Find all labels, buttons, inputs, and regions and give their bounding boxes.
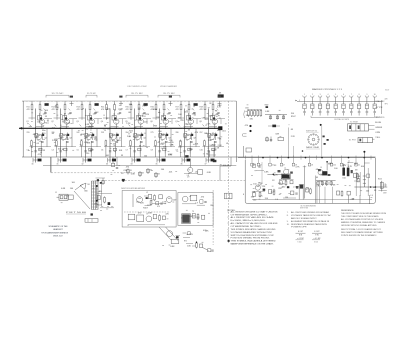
svg-text:8: 8 <box>359 94 360 96</box>
svg-text:C6: C6 <box>101 150 103 152</box>
svg-text:275: 275 <box>151 132 154 134</box>
svg-text:= 4.5 MC: = 4.5 MC <box>297 238 305 240</box>
svg-text:1: 1 <box>304 94 305 96</box>
svg-text:2.2K: 2.2K <box>127 136 132 138</box>
svg-text:TP1: TP1 <box>385 104 388 106</box>
svg-text:9: 9 <box>366 94 367 96</box>
svg-text:T5: T5 <box>192 211 194 213</box>
svg-text:THE CIRCUIT BOARD IS SHOWN AS: THE CIRCUIT BOARD IS SHOWN AS VIEWED FRO… <box>341 212 387 215</box>
svg-text:REFERENCE:: REFERENCE: <box>341 210 355 212</box>
svg-text:THE COMPONENT SIDE OF THE BOAR: THE COMPONENT SIDE OF THE BOARD. <box>341 215 380 218</box>
svg-text:39.75 MC: 39.75 MC <box>131 93 144 95</box>
svg-text:2: 2 <box>312 94 313 96</box>
svg-text:SEE PICTORIAL 7-4 FOR CHASSIS: SEE PICTORIAL 7-4 FOR CHASSIS LAYOUT. <box>341 228 382 231</box>
svg-text:= 4.5 MC: = 4.5 MC <box>314 238 322 240</box>
svg-text:6.8K: 6.8K <box>218 105 223 107</box>
svg-text:K=1000, MEG=1,000,000.: K=1000, MEG=1,000,000. <box>231 220 267 222</box>
svg-text:30: 30 <box>32 163 34 165</box>
svg-text:YEL: YEL <box>375 137 380 139</box>
svg-text:6.8K: 6.8K <box>264 172 269 174</box>
svg-text:286: 286 <box>176 132 179 134</box>
svg-text:T3: T3 <box>206 154 208 156</box>
svg-text:R215: R215 <box>378 179 382 181</box>
svg-text:2.2K: 2.2K <box>258 183 263 185</box>
svg-text:T7: T7 <box>348 161 350 163</box>
svg-text:2.2K: 2.2K <box>142 106 147 108</box>
svg-text:WAVEFORM REFERENCE ON THE CHAR: WAVEFORM REFERENCE ON THE CHART. <box>231 243 275 246</box>
svg-text:2.2K: 2.2K <box>126 123 131 125</box>
svg-text:2.2K: 2.2K <box>218 145 223 147</box>
svg-text:C4: C4 <box>52 150 54 152</box>
svg-text:5: 5 <box>335 94 336 96</box>
svg-text:6.8K: 6.8K <box>131 174 136 176</box>
svg-text:3: 3 <box>320 94 321 96</box>
svg-text:34: 34 <box>131 163 133 165</box>
svg-text:VOLTAGES TAKEN WITH LINE AT 11: VOLTAGES TAKEN WITH LINE AT 117 AC <box>291 214 332 217</box>
svg-text:Q3: Q3 <box>76 121 78 123</box>
svg-text:4.7K: 4.7K <box>153 125 158 127</box>
svg-text:Q8: Q8 <box>193 138 195 140</box>
svg-text:* *: * * <box>288 125 290 127</box>
svg-text:39.75 MC: 39.75 MC <box>52 93 65 95</box>
svg-text:C8: C8 <box>151 150 153 152</box>
svg-text:BLUE: BLUE <box>375 122 382 124</box>
svg-text:J1: J1 <box>55 192 57 194</box>
svg-text:47: 47 <box>283 164 285 166</box>
svg-text:6.8K: 6.8K <box>153 109 158 111</box>
svg-text:4.7K: 4.7K <box>85 136 90 138</box>
svg-text:POWER OFF.: POWER OFF. <box>291 227 308 229</box>
svg-text:ALIGNMENT INFORMATION ON PAGE: ALIGNMENT INFORMATION ON PAGE 38 <box>291 220 329 223</box>
svg-text:R71: R71 <box>184 241 187 243</box>
svg-text:AND NO SIGNAL INPUT.: AND NO SIGNAL INPUT. <box>291 217 318 220</box>
svg-text:Q6: Q6 <box>150 121 152 123</box>
svg-text:VIDEO MARKER: VIDEO MARKER <box>160 85 178 88</box>
svg-text:31: 31 <box>57 163 59 165</box>
svg-text:ALL RESISTORS ARE 1/2 WATT UNL: ALL RESISTORS ARE 1/2 WATT UNLESS <box>231 210 279 213</box>
svg-text:C84: C84 <box>245 108 248 110</box>
svg-text:470: 470 <box>385 98 388 100</box>
svg-text:7: 7 <box>351 94 352 96</box>
svg-text:C10: C10 <box>200 150 203 152</box>
svg-text:2.2K: 2.2K <box>66 122 71 124</box>
svg-text:GREEN: GREEN <box>375 127 383 129</box>
svg-text:264: 264 <box>126 132 129 134</box>
svg-text:242: 242 <box>77 132 80 134</box>
svg-text:36: 36 <box>181 163 183 165</box>
svg-text:POSITION VIEWED FROM FRONT.: POSITION VIEWED FROM FRONT. <box>231 238 271 240</box>
svg-text:IG-57: IG-57 <box>385 90 389 92</box>
svg-text:OTHERWISE SPECIFIED.: OTHERWISE SPECIFIED. <box>231 214 269 216</box>
svg-text:MODEL IG-57: MODEL IG-57 <box>53 235 63 237</box>
svg-text:39.75 MC: 39.75 MC <box>163 93 176 95</box>
svg-text:4.7K: 4.7K <box>295 166 300 168</box>
svg-text:E OUT: E OUT <box>298 231 303 233</box>
svg-text:6.8K: 6.8K <box>84 142 89 144</box>
svg-text:4: 4 <box>327 94 328 96</box>
svg-text:4.7K: 4.7K <box>259 195 264 197</box>
svg-text:6.8K: 6.8K <box>61 188 66 190</box>
svg-text:MARKER CRYSTALS 1 2 3: MARKER CRYSTALS 1 2 3 <box>312 88 342 91</box>
svg-text:CRYSTAL SOCKETS: CRYSTAL SOCKETS <box>334 118 350 121</box>
svg-text:GROUND WITH NO SIGNAL APPLIED.: GROUND WITH NO SIGNAL APPLIED. <box>341 224 378 227</box>
svg-text:6.8K: 6.8K <box>148 212 153 214</box>
svg-text:SWITCH SHOWN IN EXTREME CCW: SWITCH SHOWN IN EXTREME CCW <box>231 235 274 237</box>
svg-text:C7: C7 <box>126 150 128 152</box>
svg-text:S1 FRT: S1 FRT <box>349 139 356 141</box>
svg-text:6.8K: 6.8K <box>265 111 270 113</box>
svg-text:L2: L2 <box>146 192 148 194</box>
svg-text:Q1: Q1 <box>26 121 28 123</box>
svg-text:C5: C5 <box>77 150 79 152</box>
svg-text:TV POST-MARKER/SWEEP GENERATOR: TV POST-MARKER/SWEEP GENERATOR <box>41 231 68 234</box>
svg-text:POINTS SHOWN ON THE SCHEMATIC.: POINTS SHOWN ON THE SCHEMATIC. <box>341 234 378 237</box>
svg-text:6.8K: 6.8K <box>161 134 166 136</box>
svg-text:Q6: Q6 <box>143 138 145 140</box>
svg-text:ORN: ORN <box>375 132 381 134</box>
svg-text:4.7K: 4.7K <box>348 166 353 168</box>
svg-text:39.75 MC: 39.75 MC <box>87 93 97 95</box>
svg-text:X 100: X 100 <box>297 242 301 244</box>
svg-text:2.2K: 2.2K <box>291 136 296 138</box>
svg-text:Q4: Q4 <box>101 121 103 123</box>
svg-text:6.8K: 6.8K <box>356 176 361 178</box>
svg-text:253: 253 <box>101 132 104 134</box>
svg-text:220: 220 <box>27 132 30 134</box>
svg-text:37: 37 <box>205 163 207 165</box>
svg-text:6: 6 <box>343 94 344 96</box>
svg-text:WITH VTVM: WITH VTVM <box>300 207 309 209</box>
svg-text:VOLTAGES MEASURED WITH A VTVM: VOLTAGES MEASURED WITH A VTVM <box>231 231 273 234</box>
svg-text:Q7: Q7 <box>175 121 177 123</box>
svg-text:HEATHKIT: HEATHKIT <box>53 228 63 231</box>
svg-text:SWEEP OSCILLATOR AND AMPLIFIER: SWEEP OSCILLATOR AND AMPLIFIER <box>121 187 146 190</box>
svg-text:THIS SYMBOL INDICATES CHASSIS: THIS SYMBOL INDICATES CHASSIS GROUND <box>231 228 277 231</box>
svg-text:4.7K: 4.7K <box>217 107 222 109</box>
svg-text:SCHEMATIC OF THE: SCHEMATIC OF THE <box>49 225 69 228</box>
svg-text:33: 33 <box>106 163 108 165</box>
svg-text:4.7K: 4.7K <box>215 115 220 117</box>
svg-text:ALL CAPACITOR VALUES IN UUF UN: ALL CAPACITOR VALUES IN UUF UNLESS <box>231 222 279 225</box>
svg-text:THIS SYMBOL INDICATES A LETTER: THIS SYMBOL INDICATES A LETTERED <box>231 240 277 243</box>
svg-text:220: 220 <box>333 164 336 166</box>
svg-text:32: 32 <box>82 163 84 165</box>
svg-text:6.8K: 6.8K <box>207 172 212 174</box>
svg-text:4.7K: 4.7K <box>162 202 167 204</box>
svg-text:OSC MIXER 4.5MC: OSC MIXER 4.5MC <box>127 86 148 88</box>
svg-text:X 100: X 100 <box>314 242 318 244</box>
svg-text:470: 470 <box>157 206 160 208</box>
svg-text:E OUT: E OUT <box>314 231 319 233</box>
svg-text:Q3: Q3 <box>69 138 71 140</box>
svg-text:2.2K: 2.2K <box>293 187 298 189</box>
svg-text:MARKED OTHERWISE, MEASURED TO: MARKED OTHERWISE, MEASURED TO CHASSIS <box>341 221 386 224</box>
svg-text:ALL VOLTAGES ARE POSITIVE DC U: ALL VOLTAGES ARE POSITIVE DC UNLESS <box>341 218 384 221</box>
svg-text:6.8K: 6.8K <box>170 246 175 248</box>
svg-text:.02: .02 <box>358 164 360 166</box>
svg-text:RESISTANCE READINGS TAKEN WITH: RESISTANCE READINGS TAKEN WITH <box>291 223 328 226</box>
svg-text:35: 35 <box>156 163 158 165</box>
svg-text:ALL RESISTOR VALUES IN OHMS: ALL RESISTOR VALUES IN OHMS <box>231 216 275 219</box>
svg-text:2.2K: 2.2K <box>206 123 211 125</box>
svg-text:SEE CHART FOR WAVEFORMS AT LET: SEE CHART FOR WAVEFORMS AT LETTERED <box>341 231 384 234</box>
svg-text:OUT: OUT <box>383 192 387 194</box>
svg-text:ALL SWITCHES VIEWED FROM REAR: ALL SWITCHES VIEWED FROM REAR <box>291 211 330 214</box>
svg-text:297: 297 <box>200 132 203 134</box>
svg-text:Q8: Q8 <box>199 121 201 123</box>
svg-text:Q2: Q2 <box>51 121 53 123</box>
svg-text:OTHERWISE NOTED.: OTHERWISE NOTED. <box>231 226 263 228</box>
svg-text:10: 10 <box>374 94 376 96</box>
